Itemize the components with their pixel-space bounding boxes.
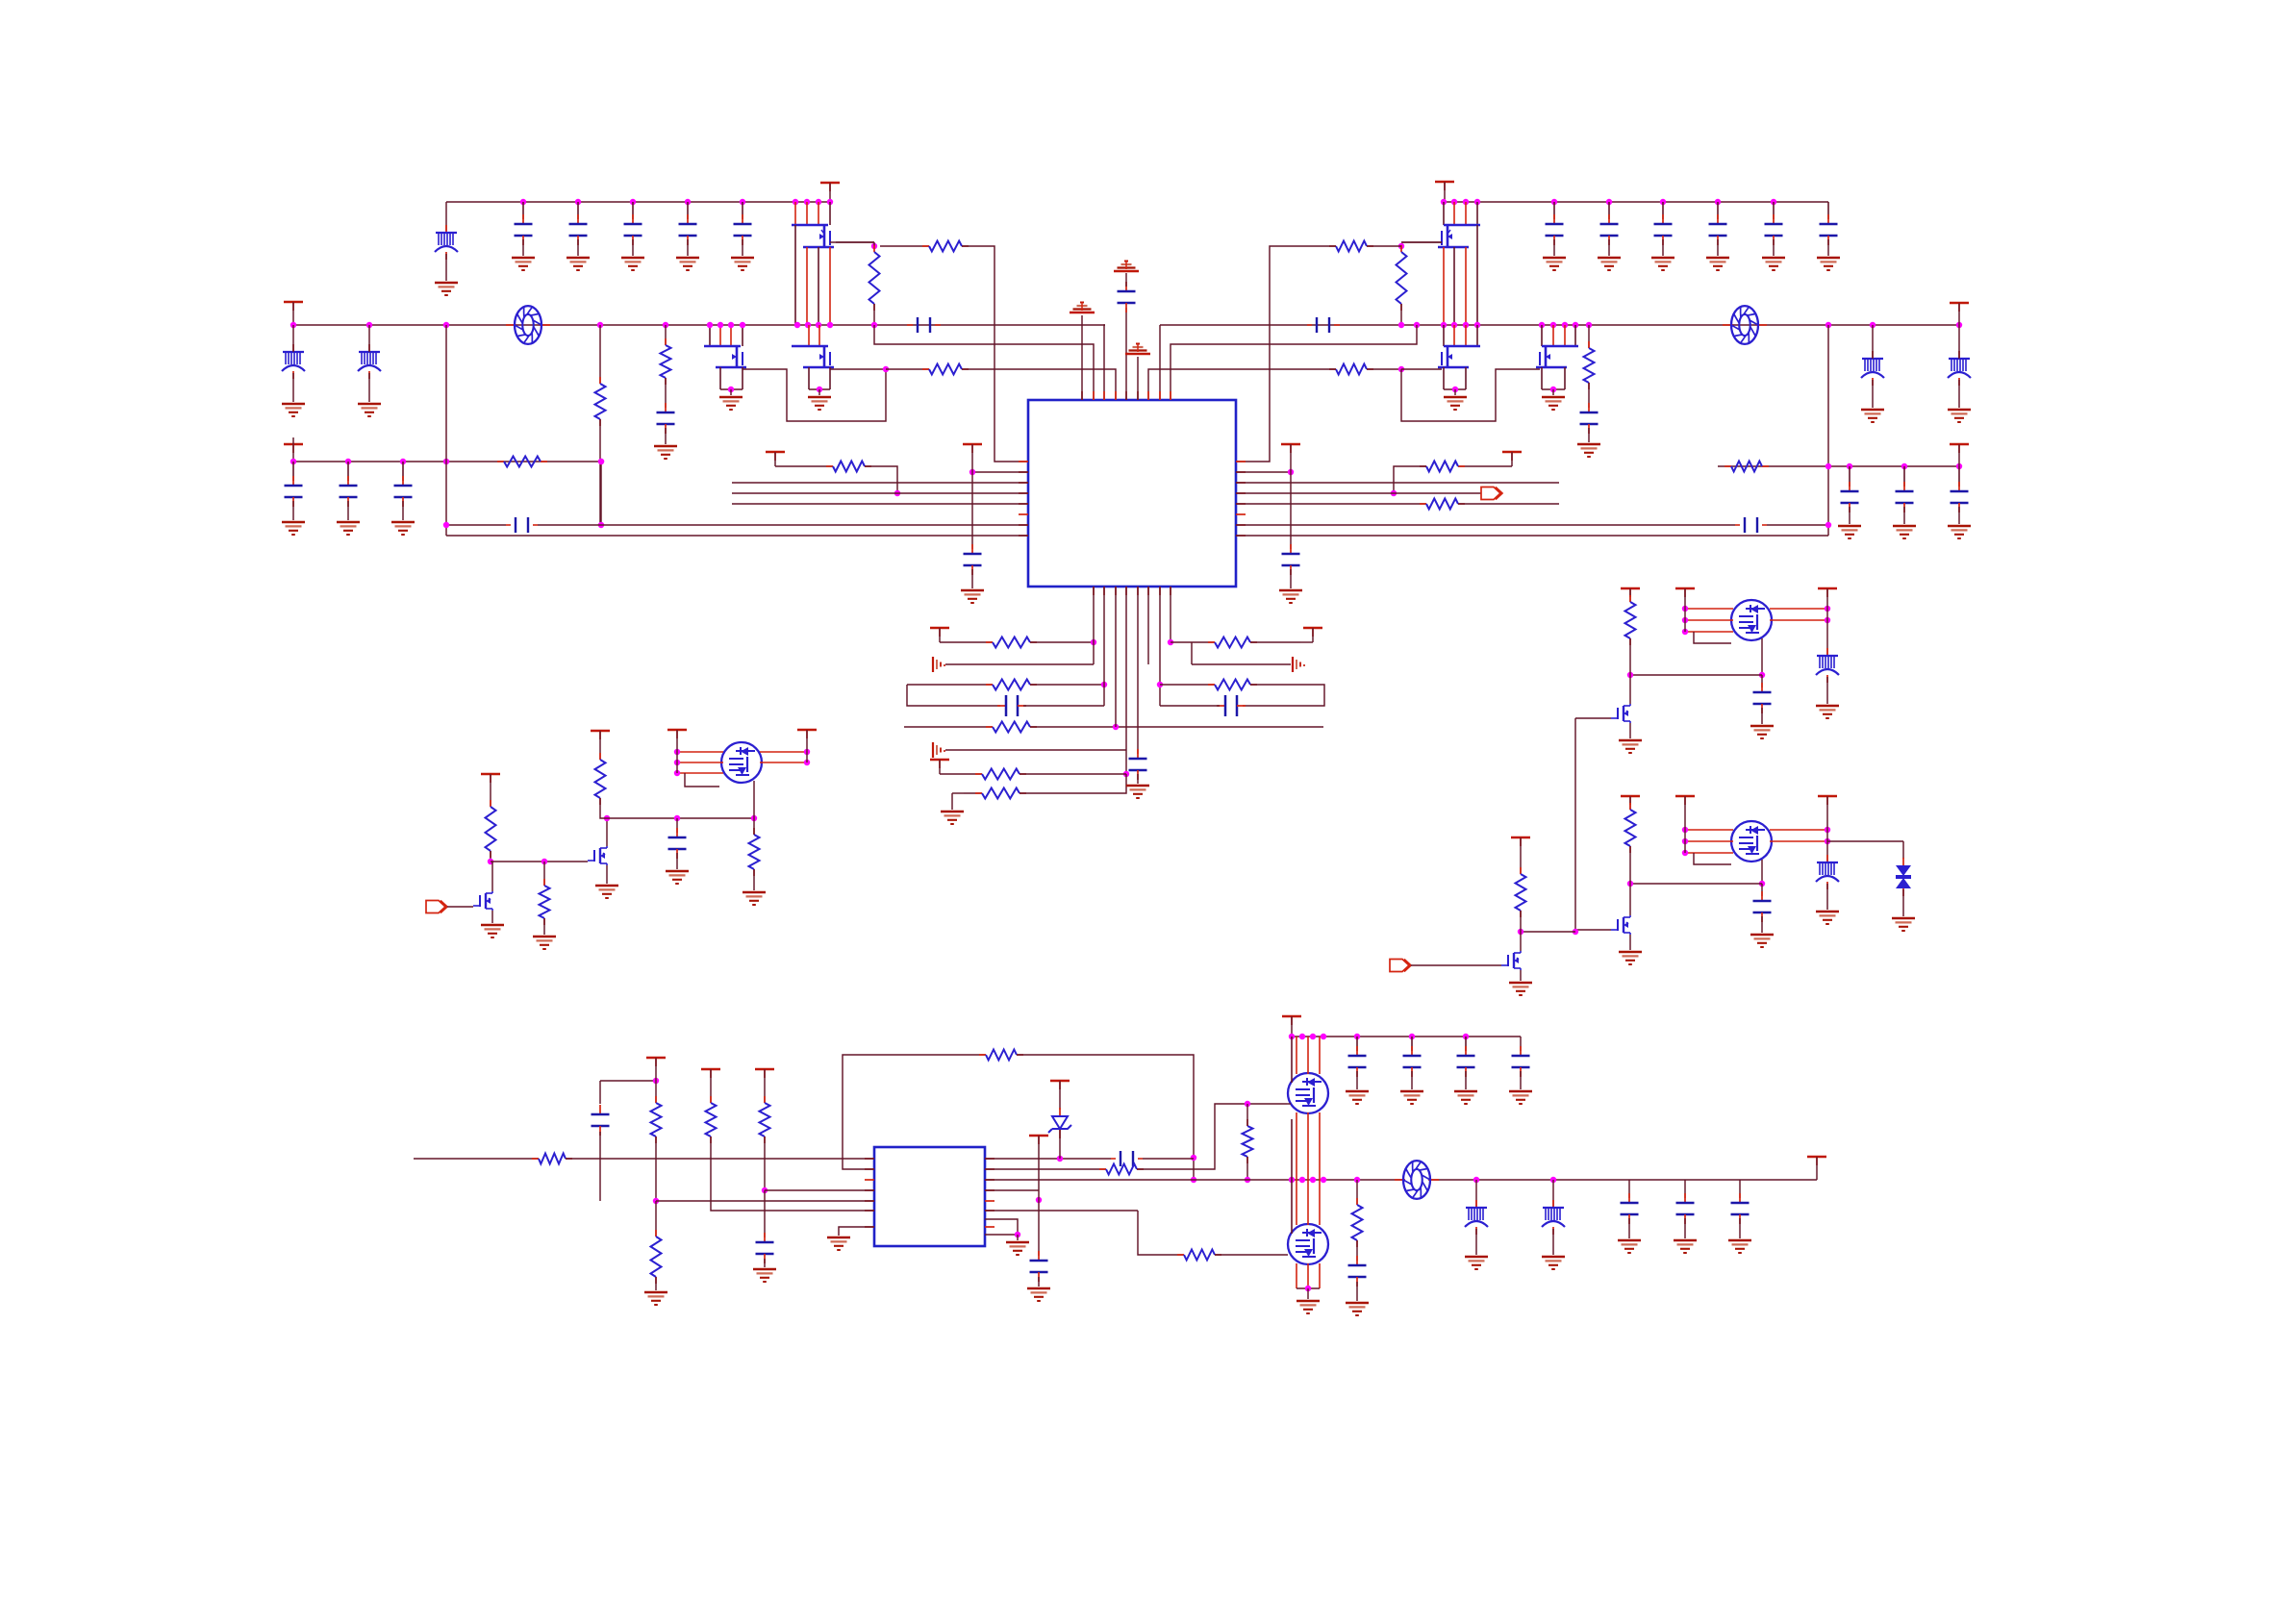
- resistor R23: [975, 773, 982, 775]
- junction bottom top rail: [1289, 1034, 1295, 1039]
- wire colB: [655, 1081, 657, 1103]
- power flag ML1: [481, 773, 500, 775]
- junction x464 rowU: [443, 522, 449, 528]
- wire Q3 gate lead: [830, 368, 886, 370]
- wire rowA: [1171, 641, 1215, 643]
- wire row6L: [940, 773, 982, 775]
- wire pin2R col down: [1290, 472, 1292, 549]
- capacitor C26: [1827, 214, 1829, 224]
- ground R42: [644, 1291, 667, 1294]
- wire gate bracket: [1694, 632, 1731, 643]
- power flag lower-right: [1950, 443, 1969, 445]
- wire: [1552, 1180, 1554, 1207]
- resistor R31: [543, 879, 545, 886]
- wire stub: [1312, 628, 1314, 642]
- resistor R33: [753, 828, 755, 835]
- wire Q6 source legs: [1541, 367, 1543, 389]
- wire gnd: [676, 853, 678, 869]
- wire: [1628, 1180, 1630, 1198]
- wire gnd: [1465, 1071, 1467, 1089]
- resistor R25: [1208, 641, 1215, 643]
- capacitor C22 input: [1608, 202, 1610, 219]
- capacitor C47 ladder: [1217, 705, 1225, 707]
- load switch B big PMOS: [1731, 821, 1772, 862]
- wire stub: [655, 1058, 657, 1081]
- wire Q6 gate jog: [1401, 369, 1540, 421]
- wire FB4 gnd: [1872, 380, 1874, 408]
- wire out row: [1630, 674, 1762, 676]
- junction top rail CR4: [1715, 199, 1721, 205]
- junction bus x464: [443, 322, 449, 328]
- junction gate Q4: [1398, 243, 1404, 249]
- capacitor C42: [1958, 482, 1960, 491]
- wire: [1684, 1180, 1686, 1198]
- ground FB5: [1948, 409, 1971, 412]
- transistor Q8 circle: [721, 742, 762, 783]
- junction Q5 source: [1452, 387, 1458, 392]
- wire rowC: [1160, 684, 1215, 686]
- transistor Q14 circle: [1288, 1073, 1328, 1113]
- wire VCC col top1: [1081, 315, 1083, 400]
- wire pin2L col down: [971, 472, 973, 549]
- wire Q14 source drops: [1296, 1112, 1297, 1180]
- wire col6: [1147, 587, 1149, 664]
- wire C7 to gnd: [665, 428, 667, 444]
- ground FB3: [358, 403, 381, 406]
- capacitor C65: [1356, 1256, 1358, 1265]
- wire Q15 drain drops: [1296, 1180, 1297, 1225]
- wire colA low: [599, 1132, 601, 1201]
- wire col8: [1170, 587, 1171, 642]
- wire Q8 left pins: [678, 751, 723, 753]
- resistor R20: [986, 641, 993, 643]
- wire FB7 gnd: [1826, 884, 1828, 910]
- wire colB low: [655, 1137, 657, 1201]
- wire B out to TVS: [1827, 840, 1903, 842]
- wire: [1761, 675, 1763, 687]
- wire col top6: [1137, 357, 1139, 400]
- wire pin4L row: [732, 492, 1028, 494]
- wire row4R to flag: [1394, 492, 1481, 494]
- capacitor C23: [1662, 214, 1664, 224]
- junction colB top: [653, 1078, 659, 1084]
- ground Q12: [1509, 982, 1532, 985]
- junction bus Q2 drops: [707, 322, 713, 328]
- series capacitor C62: [1111, 1158, 1116, 1160]
- junction col1: [1091, 639, 1096, 645]
- junction row4 x933: [894, 490, 900, 496]
- wire colB gnd leg: [655, 1201, 657, 1237]
- junction colB bottom: [653, 1198, 659, 1204]
- inductor L2 toroid: [1723, 324, 1733, 326]
- wire drv drain: [1629, 884, 1631, 915]
- junction col4: [1123, 771, 1129, 777]
- ferrite bead FB7: [1826, 855, 1828, 862]
- wire gnd: [1958, 507, 1960, 524]
- power flag VOUT right: [1950, 302, 1969, 304]
- wire input row: [414, 1158, 539, 1160]
- transistor Q1 high-side left: [792, 224, 828, 226]
- wire stub: [939, 628, 941, 642]
- wire feedback right: [1017, 1055, 1194, 1180]
- ground Q5: [1444, 396, 1467, 399]
- resistor R32: [599, 753, 601, 760]
- ground R31: [533, 936, 556, 938]
- power flag row6L: [930, 759, 949, 761]
- wire D3 to row: [1059, 1130, 1061, 1159]
- ground FB6: [1816, 705, 1839, 708]
- wire cap gnd: [1553, 239, 1555, 256]
- wire cap to gnd: [687, 239, 689, 256]
- diode D2 TVS: [1902, 858, 1904, 865]
- capacitor C11: [522, 214, 524, 224]
- power flag rowA: [1303, 627, 1322, 629]
- wire gnd lead: [1017, 1235, 1019, 1240]
- wire cap to gnd: [522, 239, 524, 256]
- junction Q2 source: [728, 387, 734, 392]
- capacitor C35: [1290, 544, 1292, 554]
- wire R47 top: [1246, 1104, 1248, 1126]
- junction x1080: [1036, 1197, 1042, 1203]
- resistor R4 HO series: [922, 245, 929, 247]
- signal ground row2L: [932, 657, 934, 672]
- capacitor C14 input: [687, 202, 689, 219]
- wire to gnd: [818, 389, 820, 395]
- ground Q9: [481, 924, 504, 927]
- wire drv source: [1629, 935, 1631, 950]
- wire drain: [1761, 638, 1763, 675]
- resistor R44: [764, 1096, 766, 1103]
- junction colD: [762, 1187, 768, 1193]
- capacitor C15: [742, 214, 743, 224]
- junction x625 rowU: [598, 522, 604, 528]
- wire cap to gnd: [742, 239, 743, 256]
- capacitor C25: [1773, 214, 1775, 224]
- resistor R11 snubber: [1588, 341, 1590, 348]
- transistor Q12 enable: [1507, 955, 1509, 966]
- junction Q12 drain: [1518, 929, 1523, 935]
- capacitor C14: [687, 214, 689, 224]
- resistor R12 rail: [497, 461, 504, 462]
- junction bus x1947: [1870, 322, 1876, 328]
- wire out row: [985, 1158, 1111, 1160]
- wire gnd: [292, 501, 294, 520]
- wire: [1520, 911, 1522, 932]
- resistor R49: [1356, 1198, 1358, 1205]
- junction row4R: [1391, 490, 1397, 496]
- wire row1 left lower rail: [293, 461, 601, 462]
- wire rowB: [1192, 663, 1291, 665]
- junction top rail CR2: [1606, 199, 1612, 205]
- wire col1080: [1038, 1190, 1040, 1256]
- wire: [1761, 884, 1763, 896]
- wire C26 gnd: [1827, 239, 1829, 256]
- wire U2 gnd pin: [839, 1227, 874, 1236]
- wire Q5 gate lead: [1401, 368, 1442, 370]
- wire U2 pin6R: [985, 1210, 1138, 1212]
- wire col: [1684, 588, 1686, 632]
- wire input row2: [566, 1158, 874, 1160]
- wire Q4 gate lead: [1401, 241, 1442, 243]
- wire Q12 drain: [1520, 932, 1522, 951]
- wire rowC loop: [1243, 685, 1324, 706]
- ground Q7: [595, 885, 618, 887]
- ground Q3: [808, 396, 831, 399]
- wire row485R: [1458, 465, 1512, 467]
- wire gnd: [1761, 708, 1763, 724]
- wire bottom top rail: [1292, 1036, 1521, 1037]
- power flag bottom VIN: [1282, 1015, 1301, 1017]
- capacitor C60: [599, 1105, 601, 1114]
- wire: [1629, 638, 1631, 675]
- capacitor C13 input: [632, 202, 634, 219]
- ground Q2: [719, 396, 743, 399]
- wire column x624: [599, 325, 601, 384]
- wire Q3 drain drops: [808, 345, 810, 347]
- wire Q14 gate: [1287, 1103, 1291, 1105]
- wire row7L corner: [1020, 774, 1126, 793]
- wire gate bracket: [1694, 853, 1731, 864]
- junction rail caps: [1354, 1034, 1360, 1039]
- wire gnd: [347, 501, 349, 520]
- capacitor C22: [1608, 214, 1610, 224]
- wire: [1030, 684, 1104, 686]
- wire R5 down: [599, 419, 601, 525]
- junction x625 row1: [598, 459, 604, 464]
- ground CB1468: [1400, 1090, 1423, 1093]
- ferrite bead FB5: [1958, 351, 1960, 359]
- wire FB3 gnd lead: [368, 373, 370, 402]
- junction R33: [751, 815, 757, 821]
- junction right pins: [1825, 827, 1830, 833]
- capacitor C7: [665, 403, 667, 412]
- wire right pins: [1770, 608, 1827, 610]
- wire stub: [774, 452, 776, 466]
- wire Q15 gate row: [1138, 1211, 1184, 1255]
- wire stub: [1059, 1081, 1061, 1110]
- junction top rail C5: [740, 199, 745, 205]
- ground CO1752: [1674, 1239, 1697, 1242]
- wire bus into IC top8: [1159, 325, 1161, 400]
- power flag right col: [1818, 795, 1837, 797]
- wire Q7 source: [606, 865, 608, 884]
- wire rail corner cap: [1520, 1037, 1522, 1051]
- wire cap gnd: [1773, 239, 1775, 256]
- ground C50: [666, 870, 689, 873]
- wire pin2R: [1236, 471, 1291, 473]
- wire gnd: [1628, 1218, 1630, 1238]
- ground C65: [1346, 1302, 1369, 1305]
- wire IC pin1R to R9: [1236, 246, 1336, 462]
- wire pin4L row: [765, 1189, 874, 1191]
- wire stub: [1520, 837, 1522, 874]
- power flag row485R: [1502, 451, 1522, 453]
- transistor Q9 enable: [479, 895, 481, 907]
- power flag colC: [701, 1068, 720, 1070]
- ground C14: [676, 257, 699, 260]
- diode D3 zener: [1059, 1108, 1061, 1116]
- wire gate node: [873, 242, 875, 246]
- wire Q9 source: [491, 911, 493, 923]
- wire pin3R row: [1236, 482, 1559, 484]
- resistor R47 gate pulldown: [1246, 1119, 1248, 1126]
- junction gate bus: [1573, 929, 1578, 935]
- junction ML gate div: [488, 859, 493, 864]
- capacitor C24: [1717, 214, 1719, 224]
- ground drv: [1619, 951, 1642, 954]
- wire gnd: [1552, 389, 1554, 395]
- transistor Q5 low-side right A: [1444, 345, 1480, 347]
- capacitor C46: [1137, 749, 1139, 759]
- junction top rail C3: [630, 199, 636, 205]
- junction col2: [1101, 682, 1107, 687]
- wire gnd: [1411, 1071, 1413, 1089]
- wire Q15 source drops: [1296, 1263, 1297, 1288]
- wire x625 lower: [600, 462, 602, 525]
- wire R11 to C28: [1588, 383, 1590, 408]
- wire stub: [1038, 1136, 1040, 1190]
- transistor Q15 circle: [1288, 1224, 1328, 1264]
- junction fb to out: [1191, 1155, 1196, 1161]
- wire bus into IC top3: [1104, 325, 1105, 400]
- wire cap gnd: [1662, 239, 1664, 256]
- capacitor C32: [402, 476, 404, 486]
- junction bus x1901: [1825, 322, 1831, 328]
- ground drv: [1619, 739, 1642, 742]
- resistor R41: [655, 1096, 657, 1103]
- wire right column down: [1827, 325, 1829, 536]
- junction top rail C2: [575, 199, 581, 205]
- power flag U2 right: [1029, 1135, 1048, 1137]
- wire main bus right: [1160, 324, 1959, 326]
- wire col top5 to cap: [1125, 308, 1127, 400]
- pin stubs U2 left: [865, 1158, 874, 1160]
- resistor R16 rail: [1725, 465, 1731, 467]
- wire stub: [1816, 1157, 1818, 1180]
- junction top rail CR5: [1771, 199, 1776, 205]
- wire col: [1826, 796, 1828, 841]
- junction lower-right rail: [1825, 463, 1831, 469]
- wire x464 vertical: [445, 325, 447, 536]
- wire: [1629, 846, 1631, 884]
- power flag chain: [1511, 837, 1530, 838]
- junction col7: [1157, 682, 1163, 687]
- junction bus x909: [871, 322, 877, 328]
- wire Q1 gate lead: [830, 241, 874, 243]
- net flag output row4R: [1481, 487, 1500, 500]
- ground CB4: [1509, 1090, 1532, 1093]
- wire cap to gnd: [577, 239, 579, 256]
- wire gnd: [1520, 1071, 1522, 1089]
- wire: [1356, 1282, 1358, 1301]
- power flag Q8 left: [667, 729, 687, 731]
- ground C13: [621, 257, 644, 260]
- ground pin7R: [1006, 1241, 1029, 1244]
- wire: [543, 918, 545, 935]
- wire: [1160, 705, 1220, 707]
- wire R4 to IC pin1 via corner: [962, 246, 1028, 462]
- junction top rail CR1: [1551, 199, 1557, 205]
- junction col8: [1168, 639, 1173, 645]
- junction Q8 right pins: [804, 749, 810, 755]
- resistor R46: [1099, 1168, 1106, 1170]
- ground C30: [282, 521, 305, 524]
- junction bus x692: [663, 322, 668, 328]
- wire stub: [939, 760, 941, 774]
- ground FB7: [1816, 911, 1839, 913]
- capacitor C15 input: [742, 202, 743, 219]
- power flag pin2R: [1281, 443, 1300, 445]
- wire row3L: [907, 684, 993, 686]
- wire Q7 drain: [606, 818, 608, 846]
- wire stub: [1958, 303, 1960, 325]
- capacitor out node: [1761, 683, 1763, 692]
- wire R3 to bus: [873, 304, 875, 325]
- resistor R5: [599, 377, 601, 384]
- wire: [1215, 1254, 1288, 1256]
- wire: [1300, 641, 1313, 643]
- ferrite bead FB1: [445, 225, 447, 233]
- resistor R9 HO series: [1329, 245, 1336, 247]
- wire LX sense right: [1171, 325, 1417, 400]
- junction left pins: [1682, 827, 1688, 833]
- junction pin2L: [969, 469, 975, 475]
- wire drain drops Q1: [794, 202, 796, 225]
- pin stubs U1 right: [1236, 461, 1246, 462]
- wire col: [676, 730, 678, 773]
- wire stub: [764, 1069, 766, 1103]
- junction LO gate right: [1398, 366, 1404, 372]
- capacitor C40 lower-right: [1849, 466, 1850, 487]
- junction top rail C4: [685, 199, 691, 205]
- power flag left col: [1675, 587, 1695, 589]
- pin stubs U1 left: [1019, 461, 1028, 462]
- wire ML row: [491, 861, 588, 862]
- wire bus to FB4: [1872, 325, 1874, 359]
- resistor R10 LO series: [1329, 368, 1336, 370]
- wire FB6 gnd: [1826, 677, 1828, 704]
- ground C33: [961, 589, 984, 592]
- capacitor CB1468: [1411, 1046, 1413, 1056]
- junction bus x624: [597, 322, 603, 328]
- power flag pin2L: [963, 443, 982, 445]
- ground CB1411: [1346, 1090, 1369, 1093]
- wire gnd: [1761, 916, 1763, 933]
- wire U2 pin4R row: [985, 1189, 1039, 1191]
- junction fb to SW: [1191, 1177, 1196, 1183]
- wire: [1475, 1180, 1477, 1207]
- ground C22: [1598, 257, 1621, 260]
- power flag right col: [1818, 587, 1837, 589]
- wire gnd: [1903, 507, 1905, 524]
- junction C50: [674, 815, 680, 821]
- pin stubs U1 bottom: [1093, 587, 1095, 595]
- wire row1148: [1247, 1103, 1287, 1105]
- junction Q8 left pins: [674, 749, 680, 755]
- wire row1L: [940, 641, 993, 643]
- ground out cap: [1750, 725, 1774, 728]
- line U right: pin7 row with series cap: [1236, 524, 1735, 526]
- wire pin5R row: [1236, 503, 1426, 505]
- ground row7L: [941, 811, 964, 813]
- wire row7L: [964, 792, 982, 794]
- capacitor C13: [632, 214, 634, 224]
- wire Q4 source legs: [1443, 247, 1445, 325]
- ground C42: [1948, 525, 1971, 528]
- ground C21: [1543, 257, 1566, 260]
- capacitor C30: [292, 476, 294, 486]
- resistor divider: [1629, 595, 1631, 602]
